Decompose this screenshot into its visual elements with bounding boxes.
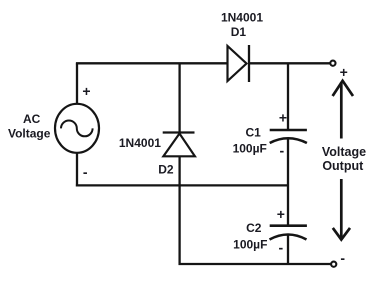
- svg-text:1N4001: 1N4001: [119, 136, 161, 150]
- svg-text:C1: C1: [246, 125, 262, 139]
- svg-text:+: +: [277, 206, 285, 222]
- svg-text:100µF: 100µF: [233, 141, 267, 155]
- svg-text:C2: C2: [246, 221, 262, 235]
- svg-text:-: -: [83, 164, 88, 180]
- svg-text:+: +: [279, 109, 287, 125]
- svg-text:1N4001: 1N4001: [221, 10, 263, 24]
- svg-text:AC: AC: [23, 112, 41, 126]
- svg-text:-: -: [279, 142, 284, 158]
- svg-text:Voltage: Voltage: [322, 145, 366, 159]
- svg-text:100µF: 100µF: [233, 237, 267, 251]
- svg-text:-: -: [278, 240, 283, 256]
- svg-text:-: -: [340, 250, 345, 266]
- svg-text:Output: Output: [322, 159, 364, 173]
- svg-text:+: +: [340, 64, 348, 80]
- svg-text:D2: D2: [158, 163, 174, 177]
- svg-text:Voltage: Voltage: [8, 127, 51, 141]
- svg-text:D1: D1: [231, 25, 247, 39]
- svg-text:+: +: [82, 83, 90, 99]
